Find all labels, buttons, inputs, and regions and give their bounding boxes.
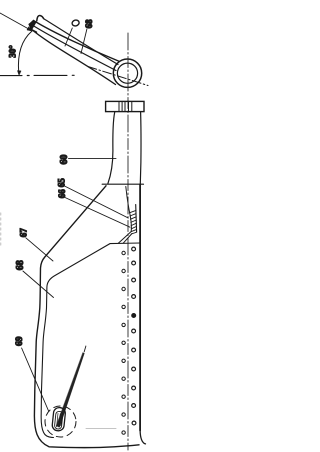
arrowhead of 30-degree line: [27, 27, 32, 31]
neck left wall: [108, 112, 115, 184]
body outer outline: shoulder, left wall, bottom, right wall: [34, 186, 139, 448]
cap ring outer circle: [113, 59, 141, 87]
left column of dots: [122, 251, 125, 434]
leader for label 69: [22, 348, 49, 412]
leader for label 66: [65, 198, 130, 228]
spout tip mouth: [29, 21, 33, 30]
funnel bottom flare lines: [118, 232, 132, 244]
spout inner bottom line: [33, 26, 116, 71]
funnel hatch marks: [129, 210, 136, 234]
spout outer bottom line: [31, 29, 116, 85]
igniter capsule inner detail: [57, 413, 63, 427]
vertical centerline dash-dot: [127, 33, 129, 450]
spout inner top line: [44, 19, 118, 65]
label 0: [71, 19, 79, 26]
faint scan smudge bottom: [86, 428, 116, 430]
cap ribs: [119, 102, 132, 111]
neck right wall: [139, 112, 142, 184]
knurled cap rectangle: [106, 101, 144, 111]
neck flange line: [102, 183, 143, 185]
igniter capsule inner: [54, 411, 63, 429]
arc bottom arrowhead: [17, 71, 21, 76]
body inner top edge and inner left wall: [41, 243, 140, 438]
spout inner top lip hook: [37, 15, 44, 20]
leader for label 0: [65, 28, 72, 46]
angle arc: [18, 31, 32, 72]
svg-text:60: 60: [59, 155, 70, 165]
30-degree reference line: [0, 13, 31, 30]
svg-text:66: 66: [57, 189, 67, 199]
svg-text:69: 69: [15, 336, 25, 346]
igniter rod tip: [84, 346, 86, 352]
spout outer top line: [34, 21, 120, 62]
horizontal centerline dash-dot: [0, 75, 22, 77]
svg-text:67: 67: [19, 228, 29, 238]
svg-text:30°: 30°: [7, 45, 17, 58]
igniter capsule outer: [52, 407, 66, 431]
leader for label 60: [69, 158, 117, 160]
leader for label 68 top: [81, 29, 87, 54]
faint scan smudge left edge: [0, 213, 2, 246]
funnel left edge: [126, 187, 132, 232]
leader for label 68 left: [23, 271, 54, 298]
funnel hatch right boundary: [135, 205, 138, 233]
spout axis diagonal dash-dot: [88, 67, 148, 86]
right column of dots: [132, 247, 136, 425]
bottom right corner curve: [140, 431, 145, 444]
cap ring inner circle: [117, 63, 137, 83]
leader for label 67: [26, 238, 53, 261]
spout tip dark cluster: [29, 21, 36, 30]
igniter dashed circle: [45, 406, 76, 437]
igniter rod segment ticks: [59, 389, 66, 403]
igniter rod: [56, 353, 84, 428]
svg-text:68: 68: [15, 260, 26, 270]
leader for label 65: [65, 186, 129, 218]
svg-text:68: 68: [84, 19, 94, 29]
